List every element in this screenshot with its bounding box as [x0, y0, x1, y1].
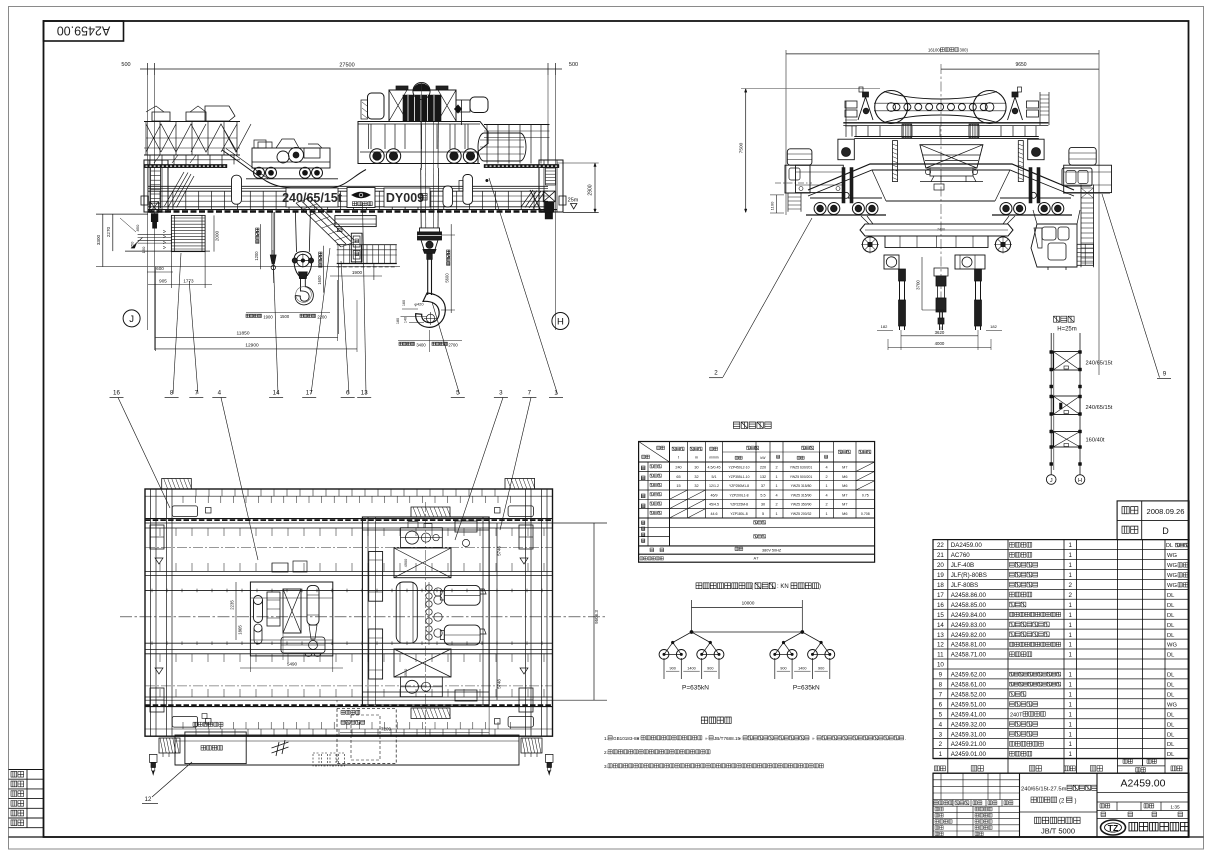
rail pads	[806, 214, 886, 216]
svg-text:A2459.83.00: A2459.83.00	[951, 622, 987, 629]
revision rows left	[933, 779, 1020, 781]
dim 7209	[340, 732, 489, 734]
main hoist drum unit on trolley	[389, 90, 456, 122]
right high railing	[484, 124, 550, 126]
leader end dot	[486, 179, 489, 182]
svg-text:27500: 27500	[339, 63, 354, 69]
svg-text:9: 9	[1163, 371, 1167, 378]
ladder below girder left	[171, 215, 205, 251]
svg-text:4: 4	[939, 721, 943, 728]
svg-text:900: 900	[780, 667, 786, 671]
girder marking text 240/65/15t	[286, 188, 338, 207]
end beams	[796, 165, 844, 192]
svg-text:M7: M7	[842, 493, 847, 497]
svg-text:DL: DL	[1167, 732, 1175, 738]
svg-text:8: 8	[939, 682, 943, 689]
dashed hoist boxes	[337, 709, 396, 764]
deck hatched towers	[902, 124, 912, 138]
driver cab suspended right	[1062, 168, 1092, 186]
svg-text:15: 15	[937, 612, 944, 619]
right cooler unit	[1069, 147, 1096, 165]
hanging rod left	[899, 269, 901, 330]
wheel diagram connecting beam	[692, 631, 803, 633]
svg-text:2: 2	[775, 466, 777, 470]
dim 3700	[921, 257, 923, 310]
buffer spring boxes	[159, 738, 180, 753]
svg-text:A2458.52.00: A2458.52.00	[951, 691, 987, 698]
upper X gearbox	[394, 548, 451, 578]
svg-text:1: 1	[775, 475, 777, 479]
svg-text:14: 14	[273, 390, 280, 397]
plan top walkway plate ticks	[195, 489, 197, 496]
svg-text:11850: 11850	[237, 331, 250, 337]
svg-text:P=635kN: P=635kN	[682, 685, 709, 692]
svg-text:1: 1	[1069, 542, 1073, 549]
datum circle J	[123, 310, 140, 327]
transformer room box	[185, 732, 246, 764]
svg-text:WG: WG	[1167, 643, 1177, 649]
svg-text:13: 13	[361, 390, 368, 397]
company logo TZ	[1101, 820, 1126, 835]
svg-text:4000: 4000	[935, 341, 945, 346]
svg-text:500: 500	[569, 62, 578, 68]
svg-text:2: 2	[1069, 582, 1073, 589]
svg-text:1: 1	[1069, 602, 1073, 609]
svg-text:220: 220	[760, 466, 766, 470]
svg-text:9506.3: 9506.3	[594, 610, 599, 624]
cab switch panel	[351, 233, 362, 262]
svg-text:17: 17	[306, 390, 313, 397]
svg-text:850: 850	[135, 224, 140, 231]
end carriage verticals left	[150, 489, 152, 736]
svg-text:DL: DL	[1167, 742, 1175, 748]
aux trolley rope drum	[307, 585, 319, 625]
company name da zhong ji shu zhong xin	[1129, 822, 1138, 831]
svg-text:240/65/15t: 240/65/15t	[282, 191, 343, 205]
svg-text:3700: 3700	[916, 280, 921, 290]
trolley left motor	[368, 93, 385, 119]
svg-text:240/65/15t: 240/65/15t	[1086, 405, 1113, 411]
svg-text:12900: 12900	[245, 342, 259, 348]
trolley right motor	[470, 97, 488, 113]
small deck rects top band	[172, 506, 197, 517]
svg-text:A2459.21.00: A2459.21.00	[951, 741, 987, 748]
cab big below	[1031, 224, 1077, 267]
wheel spacing dims 900 1400 900	[664, 666, 719, 668]
svg-text:A2459.51.00: A2459.51.00	[951, 701, 987, 708]
svg-text:150: 150	[141, 246, 146, 253]
svg-text:.: .	[905, 736, 906, 741]
svg-text:A2458.61.00: A2458.61.00	[951, 682, 987, 689]
dim 2235 aux	[235, 582, 237, 640]
svg-text:240T: 240T	[1010, 712, 1023, 718]
svg-text:1:35: 1:35	[1170, 804, 1180, 810]
svg-text:10000: 10000	[742, 601, 755, 606]
svg-text:4: 4	[825, 493, 827, 497]
girder hatch door slots	[232, 175, 242, 204]
65t hook block	[295, 212, 296, 252]
svg-text:YWZ5 315/80: YWZ5 315/80	[791, 484, 812, 488]
dim hook travel 5600	[450, 224, 452, 313]
svg-text:1: 1	[1069, 731, 1073, 738]
girder factory logo plaque	[347, 188, 375, 208]
svg-text:DL: DL	[1167, 633, 1175, 639]
svg-text:5490: 5490	[287, 662, 298, 667]
svg-text:1: 1	[1069, 672, 1073, 679]
svg-text:240/65/15t: 240/65/15t	[1086, 361, 1113, 367]
aux trolley gearbox X	[283, 589, 301, 633]
svg-text:1.: 1.	[604, 736, 608, 741]
svg-text:1: 1	[1069, 701, 1073, 708]
left dim ladder verticals	[102, 214, 104, 267]
end carriage verticals right	[525, 489, 527, 736]
svg-text:1: 1	[1069, 622, 1073, 629]
datum circle H	[552, 313, 569, 330]
main trolley centerline	[425, 502, 427, 738]
table header cells	[639, 461, 875, 463]
svg-text:2900: 2900	[588, 184, 594, 195]
svg-text:P=635kN: P=635kN	[793, 685, 820, 692]
svg-text:YZP180L-8: YZP180L-8	[730, 512, 747, 516]
svg-text:YZP225M-8: YZP225M-8	[730, 503, 748, 507]
svg-text:10: 10	[937, 662, 944, 669]
svg-text:900: 900	[707, 667, 713, 671]
svg-text:DL: DL	[1167, 752, 1175, 758]
auxiliary rope and small block	[271, 212, 273, 255]
svg-text:9650: 9650	[1015, 62, 1026, 68]
svg-text:905: 905	[159, 279, 167, 284]
svg-text:11: 11	[937, 652, 944, 659]
dim 1900 under cab	[339, 268, 374, 270]
table diagonal slashes	[856, 462, 875, 471]
svg-text:180: 180	[396, 318, 400, 324]
svg-text:7209: 7209	[381, 727, 392, 732]
dim arrow ticks left stack	[163, 230, 166, 233]
dim 2900 right	[594, 163, 596, 213]
svg-text:«: «	[637, 736, 640, 741]
main trolley hatched ribs	[411, 507, 450, 517]
revision header row	[933, 805, 1020, 807]
left end truck dark blocks	[150, 202, 159, 213]
plan view outer outline	[145, 489, 553, 736]
plan top walkway lines	[145, 495, 553, 497]
center electrode hook	[934, 268, 948, 276]
svg-text:m/min: m/min	[709, 456, 718, 460]
svg-text:3620: 3620	[935, 330, 945, 335]
svg-text:YZP250M1-8: YZP250M1-8	[729, 484, 749, 488]
svg-text:H: H	[1078, 478, 1082, 484]
svg-text:2000: 2000	[215, 230, 220, 241]
240t hook ropes	[420, 168, 423, 228]
end view centerline	[940, 64, 942, 330]
bridge section profile	[808, 164, 1074, 190]
svg-text:J: J	[129, 314, 134, 325]
svg-text:«: «	[739, 736, 742, 741]
truss label dian lu kua	[1054, 316, 1060, 322]
svg-text:17: 17	[937, 592, 944, 599]
svg-text:D: D	[1162, 526, 1169, 536]
lower gear cluster	[401, 677, 443, 697]
left sloped railing hatch	[165, 172, 195, 208]
cab top box	[335, 216, 376, 227]
left lower box and ladder	[785, 165, 810, 193]
plan centerline	[120, 616, 607, 618]
dim 1100 left	[776, 195, 778, 213]
rail top reference line	[96, 266, 400, 268]
main trolley wheels	[370, 149, 384, 163]
svg-text:AC760: AC760	[951, 552, 970, 559]
svg-text:5: 5	[762, 512, 764, 516]
girder inner edges	[145, 527, 553, 529]
svg-text:2008.09.26: 2008.09.26	[1146, 507, 1184, 516]
leader line 12 to transformer room	[152, 762, 192, 797]
truss X panel 2 240/65/15t	[1053, 396, 1080, 415]
svg-text:65: 65	[676, 475, 680, 479]
truss connection dots	[1050, 351, 1053, 354]
svg-text:46/9: 46/9	[711, 493, 718, 497]
svg-text:160: 160	[402, 300, 406, 306]
left projection line girder bottom	[96, 213, 148, 215]
stairs from girder to cab platform	[296, 198, 354, 247]
svg-text:JLF-40B: JLF-40B	[951, 562, 974, 569]
rail clamp symbols	[155, 558, 163, 564]
small support under center	[934, 184, 944, 190]
svg-text:DA2459.00: DA2459.00	[951, 542, 983, 549]
inspection cage label	[193, 722, 197, 726]
svg-text:380V 50HZ: 380V 50HZ	[762, 549, 782, 553]
svg-text:M6: M6	[842, 475, 847, 479]
svg-text:2: 2	[825, 503, 827, 507]
signature rows left	[933, 811, 1020, 813]
svg-text:DL: DL	[1167, 683, 1175, 689]
dim 12900	[155, 348, 357, 350]
main drum plan	[396, 582, 417, 643]
svg-text:): )	[819, 584, 821, 590]
svg-text:5600: 5600	[445, 273, 450, 283]
balance beam tree	[690, 631, 693, 634]
svg-text:1: 1	[775, 484, 777, 488]
svg-text:1: 1	[1069, 572, 1073, 579]
svg-text:»: »	[812, 736, 815, 741]
drum small sheave row	[893, 104, 900, 111]
left end truck	[144, 160, 168, 212]
svg-text:32: 32	[694, 484, 698, 488]
svg-text:2: 2	[939, 741, 943, 748]
svg-text:M6: M6	[842, 484, 847, 488]
lifting beam 240t	[860, 224, 1013, 236]
svg-text:5748: 5748	[497, 679, 502, 689]
left platform structure with lattice	[144, 154, 240, 156]
svg-text:1: 1	[1069, 562, 1073, 569]
aux trolley small cart	[281, 637, 325, 653]
truss base circles J H	[1046, 475, 1056, 485]
svg-text:7: 7	[528, 390, 532, 397]
svg-text:YWZ5 630/201: YWZ5 630/201	[790, 466, 813, 470]
svg-text:WG: WG	[1167, 553, 1177, 559]
aux trolley plan group	[250, 582, 332, 656]
end view: top dim 9650	[941, 68, 1099, 70]
240t main trolley frame	[358, 122, 488, 164]
girder top flange saddle curve	[222, 150, 366, 188]
general tech condition lines	[1035, 817, 1041, 823]
svg-text:45/4.5: 45/4.5	[709, 503, 719, 507]
svg-text:7: 7	[939, 691, 943, 698]
table data rows	[639, 470, 875, 472]
svg-text:13: 13	[937, 632, 944, 639]
svg-text:182: 182	[881, 324, 888, 329]
svg-text:3.: 3.	[604, 764, 608, 769]
dim hook travel 1600	[323, 246, 325, 293]
front view: top dimension line 27500 with 500 ends	[140, 68, 562, 70]
svg-text:3300: 3300	[96, 234, 101, 245]
svg-text:1: 1	[1069, 711, 1073, 718]
svg-text:H: H	[557, 316, 564, 327]
wheel balancers left	[810, 197, 843, 199]
svg-text:A2459.84.00: A2459.84.00	[951, 612, 987, 619]
title block frame	[933, 773, 1189, 837]
hook blocks under beam	[884, 255, 899, 269]
tech requirements title	[701, 717, 707, 723]
dim 2000 at ladder	[213, 215, 215, 251]
girder axis dash-dot lines	[145, 546, 553, 548]
svg-text:1: 1	[1069, 642, 1073, 649]
table row labels	[650, 465, 653, 468]
svg-text:1200: 1200	[254, 251, 259, 261]
svg-text:YZP450L2-10: YZP450L2-10	[729, 466, 750, 470]
svg-text:1500: 1500	[280, 314, 290, 319]
truss X panel 3 160/40t	[1053, 432, 1080, 448]
svg-text:DL: DL	[1167, 593, 1175, 599]
beam crosshead	[885, 236, 988, 248]
svg-text:m: m	[695, 456, 698, 460]
svg-text:4900: 4900	[404, 559, 408, 567]
dark guide bars near end beams	[842, 168, 845, 203]
svg-text:15: 15	[676, 484, 680, 488]
girder diaphragm ticks	[159, 528, 161, 536]
240t ladle hook	[416, 293, 446, 327]
dim 11850	[155, 336, 337, 338]
svg-text:5: 5	[939, 711, 943, 718]
dims 600 905 1773	[147, 271, 173, 273]
svg-text:M6: M6	[842, 512, 847, 516]
svg-text:DL: DL	[1167, 722, 1175, 728]
svg-text:DL: DL	[1167, 653, 1175, 659]
svg-text:A7: A7	[754, 556, 760, 561]
svg-text:16: 16	[937, 602, 944, 609]
right end truck	[539, 160, 563, 212]
svg-text:A2459.00: A2459.00	[57, 24, 111, 38]
svg-text:A2458.81.00: A2458.81.00	[951, 642, 987, 649]
bottom service walkway	[175, 735, 519, 765]
sloped railing end hatch	[521, 190, 544, 209]
svg-text:16100(: 16100(	[928, 48, 942, 53]
svg-text:M7: M7	[842, 466, 847, 470]
drum A-frame left	[863, 92, 869, 97]
left small dim rows	[138, 234, 172, 236]
svg-text:DL: DL	[1167, 712, 1175, 718]
svg-text:6: 6	[346, 390, 350, 397]
svg-text:WG: WG	[1167, 702, 1177, 708]
weight subheader	[1118, 765, 1166, 767]
svg-text:YZP200L1-8: YZP200L1-8	[729, 493, 748, 497]
right side dims of plan	[593, 523, 595, 700]
wheel spacing dims 900 1400 900	[775, 666, 830, 668]
svg-text:A2458.85.00: A2458.85.00	[951, 602, 987, 609]
svg-text:160/40t: 160/40t	[1086, 438, 1105, 444]
svg-text:32: 32	[694, 475, 698, 479]
small deck rects bottom band	[172, 717, 197, 728]
left walkway dark dotted bar	[144, 164, 227, 167]
svg-text:YWZ5 500/201: YWZ5 500/201	[790, 475, 813, 479]
trolley side frames	[369, 552, 383, 602]
girder railing posts	[159, 191, 161, 209]
trolley rails in plan	[145, 589, 553, 591]
platform support posts	[149, 155, 151, 164]
svg-text:DL: DL	[1167, 673, 1175, 679]
svg-text:DL: DL	[1166, 543, 1173, 549]
svg-text:1: 1	[1069, 682, 1073, 689]
leader lines	[118, 398, 170, 509]
hash mark symbol	[272, 740, 289, 756]
65t hook	[295, 279, 313, 305]
svg-text:»: »	[705, 736, 708, 741]
svg-text:6: 6	[939, 701, 943, 708]
leader wedge arrow	[132, 243, 137, 248]
svg-text:0.75: 0.75	[862, 493, 869, 497]
svg-text:20: 20	[937, 562, 944, 569]
plan bottom walkway plate ticks	[195, 729, 197, 736]
truss X panel 1 240/65/15t	[1053, 352, 1080, 371]
svg-text:4: 4	[775, 493, 777, 497]
svg-text:A2459.01.00: A2459.01.00	[951, 751, 987, 758]
walkway dark dotted bar	[484, 164, 559, 167]
counterweight stack right	[1077, 244, 1094, 265]
drum shell dog-bone outline	[884, 92, 997, 100]
svg-text:1900: 1900	[352, 270, 363, 275]
girder end taper curve	[530, 190, 542, 213]
svg-text:18: 18	[937, 582, 944, 589]
svg-text:16: 16	[113, 390, 120, 397]
svg-text:44.6: 44.6	[711, 512, 718, 516]
svg-text:1: 1	[825, 484, 827, 488]
svg-text:2: 2	[1069, 592, 1073, 599]
svg-text:22: 22	[937, 542, 944, 549]
aux trolley shafts	[267, 592, 280, 626]
corner pins with feet	[150, 754, 158, 762]
left end ladder inside end truck	[150, 168, 152, 208]
rail level line right	[1063, 193, 1110, 195]
sheet count row	[1097, 818, 1189, 820]
aux trolley motor bottles	[254, 596, 263, 605]
svg-text:1400: 1400	[798, 667, 806, 671]
svg-text:1: 1	[1069, 691, 1073, 698]
gear shaft circles column	[426, 585, 432, 591]
svg-text:JLF(R)-80BS: JLF(R)-80BS	[951, 572, 987, 579]
svg-text:JLF-80BS: JLF-80BS	[951, 582, 979, 589]
svg-text:1: 1	[1069, 741, 1073, 748]
plan bottom walkway lines	[145, 728, 553, 730]
svg-text:DY009: DY009	[386, 191, 424, 205]
anchoring blocks hatched top corners	[162, 479, 192, 490]
cab railing platform	[337, 244, 397, 246]
svg-text:240/65/15t-27.5m: 240/65/15t-27.5m	[1021, 787, 1067, 793]
main trolley plan group	[362, 517, 489, 705]
svg-text:WG: WG	[1167, 583, 1177, 589]
svg-text:1: 1	[1069, 612, 1073, 619]
svg-text:12/1.2: 12/1.2	[709, 484, 719, 488]
svg-text:2200: 2200	[317, 315, 327, 320]
svg-text:600: 600	[156, 266, 164, 271]
